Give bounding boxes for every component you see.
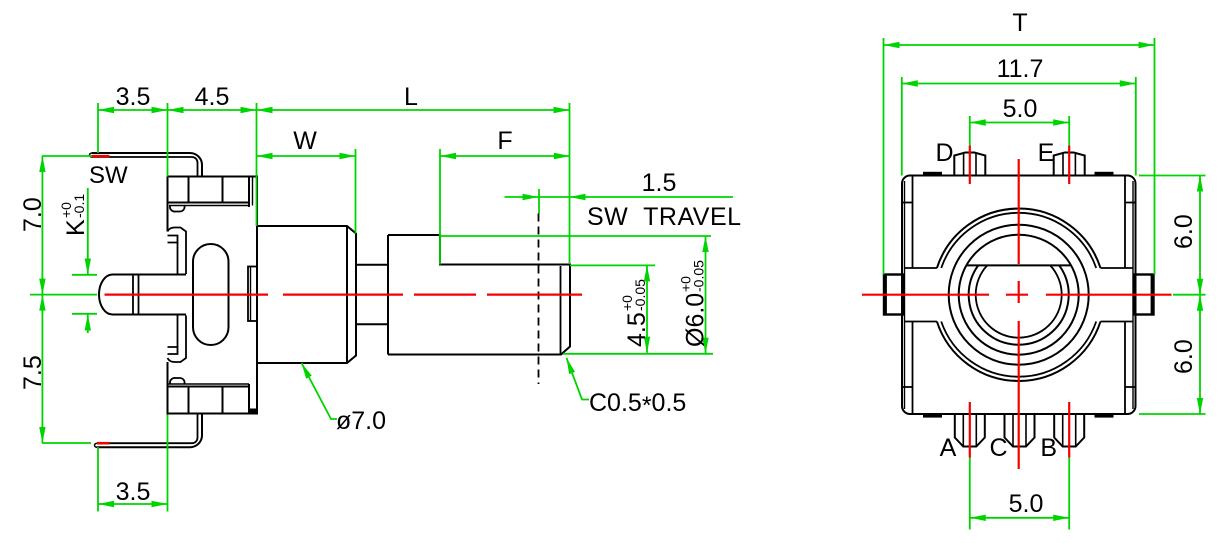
red pin center ticks bbox=[969, 146, 971, 185]
crimp tab bbox=[923, 172, 942, 176]
dashed switch travel line bbox=[538, 214, 540, 385]
top terminal pin inner bbox=[92, 157, 198, 177]
front body outline bbox=[902, 176, 1136, 415]
svg-text:5.0: 5.0 bbox=[1003, 95, 1038, 123]
body left edge upper bbox=[167, 177, 169, 232]
svg-text:B: B bbox=[1040, 434, 1057, 462]
inner tab at body right edge bbox=[248, 267, 257, 322]
leader C0.5 bbox=[567, 358, 590, 400]
crimp tab bbox=[923, 414, 942, 418]
svg-text:K: K bbox=[62, 219, 90, 236]
dimension 5.0 bottom bbox=[970, 517, 1069, 519]
svg-text:-0.05: -0.05 bbox=[632, 279, 648, 311]
label 7.5 rotated bbox=[19, 355, 47, 390]
crimp tab bbox=[1095, 414, 1114, 418]
svg-text:3.5: 3.5 bbox=[116, 83, 151, 111]
svg-text:C: C bbox=[989, 434, 1007, 462]
svg-text:6.0: 6.0 bbox=[1170, 214, 1198, 249]
inner tab second line bbox=[250, 267, 252, 322]
neck top edge bbox=[356, 264, 388, 266]
dimension T bbox=[884, 44, 1155, 46]
svg-text:F: F bbox=[497, 127, 512, 155]
left side pin bbox=[884, 275, 904, 315]
leader dia 7.0 bbox=[302, 363, 338, 419]
svg-text:D: D bbox=[935, 139, 953, 167]
svg-text:L: L bbox=[404, 83, 418, 111]
dimension F bbox=[440, 155, 570, 157]
bottom block divider1 bbox=[188, 387, 190, 414]
outer ring r82 bottom arc bbox=[941, 322, 1096, 377]
upper latch hook bbox=[168, 228, 187, 275]
outer ring r86 bottom arc bbox=[937, 322, 1101, 381]
dimension 6.0/6.0 right chain bbox=[1199, 176, 1201, 415]
svg-text:-0.05: -0.05 bbox=[691, 260, 707, 292]
dimension 3.5 / 4.5 / L top chain bbox=[98, 109, 570, 111]
shaft inner arc bbox=[976, 265, 1062, 337]
outer ring r86 top arc bbox=[937, 209, 1101, 268]
left notch bottom edge bbox=[905, 321, 937, 323]
pin E inner line2 bbox=[1074, 154, 1076, 176]
pin A outline bbox=[955, 414, 985, 447]
dimension 4.5 tol vertical bbox=[646, 265, 648, 352]
svg-text:-0.1: -0.1 bbox=[71, 194, 87, 218]
top block divider2 bbox=[222, 177, 224, 203]
svg-text:SW TRAVEL: SW TRAVEL bbox=[587, 203, 742, 231]
left flange line lower bbox=[912, 322, 914, 415]
dimension 3.5 bottom bbox=[98, 503, 168, 505]
bottom terminal pin outer bbox=[97, 414, 202, 448]
bottom block divider2 bbox=[222, 387, 224, 414]
right inner edge line bbox=[1132, 181, 1134, 409]
left inner edge line bbox=[904, 181, 906, 409]
red tip of bottom pin bbox=[97, 442, 110, 445]
dimension 7.0 / 7.5 left chain bbox=[41, 156, 43, 443]
body left edge lower bbox=[167, 362, 169, 414]
right notch bottom edge bbox=[1101, 321, 1134, 323]
right flange line upper bbox=[1124, 176, 1126, 269]
axis dash bbox=[283, 294, 403, 296]
svg-text:SW: SW bbox=[89, 162, 128, 189]
left flange line upper bbox=[912, 176, 914, 269]
bushing outline bbox=[257, 226, 356, 363]
neck bottom edge bbox=[356, 323, 388, 325]
extension lines top bbox=[97, 103, 99, 153]
svg-text:4.5: 4.5 bbox=[623, 312, 651, 347]
top block inner right line bbox=[252, 177, 254, 206]
svg-text:4.5: 4.5 bbox=[195, 83, 230, 111]
dimension 5.0 top bbox=[970, 122, 1069, 124]
pin B inner line1 bbox=[1062, 414, 1064, 446]
corner tick bottom-left bbox=[902, 386, 913, 388]
shaft end chamfer line bbox=[560, 266, 562, 354]
pin B inner line2 bbox=[1075, 414, 1077, 446]
top block divider1 bbox=[188, 177, 190, 203]
upper small notch bbox=[168, 236, 178, 243]
bottom block top line2 bbox=[168, 386, 250, 388]
svg-text:7.5: 7.5 bbox=[19, 355, 47, 390]
shaft outline with flat bbox=[388, 235, 570, 355]
switch button round cap bbox=[99, 275, 113, 315]
switch button face line2 bbox=[138, 275, 140, 315]
right notch top edge bbox=[1101, 267, 1134, 269]
dimension 1.5 SW TRAVEL bbox=[505, 196, 734, 198]
lower latch hook bbox=[168, 316, 187, 363]
dimension K bbox=[87, 188, 89, 275]
top block bottom line2 bbox=[169, 205, 249, 207]
svg-text:T: T bbox=[1012, 9, 1027, 37]
bottom block divider3 bbox=[248, 384, 250, 414]
top pin end cap bbox=[90, 153, 93, 157]
svg-text:5.0: 5.0 bbox=[1009, 490, 1044, 518]
shaft end chamfer circle arc bbox=[969, 265, 1069, 344]
left notch top edge bbox=[905, 267, 937, 269]
svg-text:E: E bbox=[1038, 139, 1055, 167]
switch button bottom edge bbox=[112, 314, 186, 316]
encoder body top edge/right edge/bottom edge bbox=[168, 177, 258, 414]
top block bottom line1 bbox=[168, 202, 250, 204]
pin C inner line2 bbox=[1025, 414, 1027, 446]
pin D inner line2 bbox=[975, 154, 977, 176]
corner tick top-left bbox=[902, 202, 913, 204]
red tip of top pin bbox=[92, 155, 110, 158]
svg-text:W: W bbox=[293, 127, 317, 155]
pin E outline bbox=[1054, 153, 1085, 176]
label 4.5 tol rotated bbox=[619, 279, 651, 347]
right side pin bbox=[1134, 275, 1154, 315]
stadium slot in body bbox=[193, 244, 229, 345]
bushing chamfer edge line bbox=[346, 226, 348, 363]
svg-text:C0.5*0.5: C0.5*0.5 bbox=[589, 389, 686, 420]
corner tick bottom-right bbox=[1125, 386, 1136, 388]
bottom block top line1 bbox=[168, 383, 250, 385]
axis dash bbox=[414, 294, 476, 296]
switch button face line1 bbox=[132, 275, 134, 315]
label 6.0 upper rotated bbox=[1170, 214, 1198, 249]
pin C inner line1 bbox=[1012, 414, 1014, 446]
svg-text:ø7.0: ø7.0 bbox=[336, 407, 386, 435]
shaft circle r60 bbox=[959, 235, 1079, 355]
top terminal pin outer bbox=[92, 153, 202, 177]
svg-text:Ø6.0: Ø6.0 bbox=[682, 293, 710, 347]
clip above bottom block bbox=[170, 378, 185, 384]
dimension dia 6.0 vertical bbox=[705, 236, 707, 354]
bottom block right corner fill bbox=[249, 409, 257, 414]
label 7.0 rotated bbox=[19, 197, 47, 232]
right side pin thick edge bbox=[1151, 274, 1154, 315]
outer ring r82 top arc bbox=[941, 213, 1096, 268]
lower guide line bbox=[177, 315, 179, 347]
lower small notch bbox=[168, 347, 178, 354]
shaft flat chord bbox=[966, 264, 1071, 266]
bottom pin end cap bbox=[95, 443, 98, 447]
right flange line lower bbox=[1124, 322, 1126, 415]
crimp tab bbox=[1095, 172, 1114, 176]
red vertical center line front view bbox=[1018, 159, 1020, 264]
svg-text:7.0: 7.0 bbox=[19, 197, 47, 232]
pin D outline bbox=[954, 153, 985, 176]
axis dash bbox=[487, 294, 582, 296]
pin C outline bbox=[1005, 414, 1035, 447]
bushing circle r70 bbox=[949, 225, 1089, 365]
pin A inner line2 bbox=[975, 414, 977, 446]
label K tol rotated bbox=[58, 194, 90, 236]
switch button top edge bbox=[112, 274, 186, 276]
dimension W bbox=[257, 155, 356, 157]
axis dash bbox=[105, 294, 269, 296]
upper guide line bbox=[177, 243, 179, 275]
pin B outline bbox=[1054, 414, 1084, 447]
red horizontal center line front view bbox=[862, 294, 989, 296]
pin D inner line1 bbox=[963, 154, 965, 176]
svg-text:6.0: 6.0 bbox=[1170, 339, 1198, 374]
svg-text:3.5: 3.5 bbox=[116, 478, 151, 506]
clip under top block bbox=[170, 206, 185, 212]
pin A inner line1 bbox=[962, 414, 964, 446]
top block divider3 bbox=[248, 177, 250, 208]
svg-text:11.7: 11.7 bbox=[997, 55, 1044, 83]
label 6.0 lower rotated bbox=[1170, 339, 1198, 374]
pin E inner line1 bbox=[1062, 154, 1064, 176]
svg-text:A: A bbox=[940, 434, 957, 462]
left side pin thick edge bbox=[884, 274, 887, 315]
svg-text:1.5: 1.5 bbox=[642, 169, 677, 197]
label dia6.0 tol rotated bbox=[678, 260, 710, 347]
dimension 11.7 bbox=[902, 83, 1136, 85]
corner tick top-right bbox=[1125, 202, 1136, 204]
bottom terminal pin inner bbox=[97, 414, 198, 444]
